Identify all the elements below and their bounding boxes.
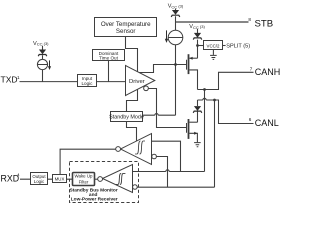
wire TXD input (20, 81, 78, 83)
op-amp receiver U2 (116, 134, 157, 165)
svg-text:8: 8 (248, 17, 251, 22)
wire diode D4 to NMOS drain (197, 100, 199, 122)
node VCC diode / VCC half (196, 44, 199, 47)
wire TXD pull-up vertical (42, 46, 44, 82)
op-amp low-power receiver U3 (98, 165, 138, 193)
box VCC/2 (204, 41, 223, 50)
transistor Q1 PMOS high-side (187, 54, 193, 74)
svg-text:Driver: Driver (129, 79, 145, 85)
box Over Temperature Sensor (95, 18, 157, 37)
wire NMOS bottom lead to ground (189, 133, 197, 142)
svg-text:RXD: RXD (1, 173, 20, 183)
svg-text:Logic: Logic (82, 81, 94, 86)
wire Over Temperature Sensor to Driver (126, 37, 138, 73)
label Standby Bus Monitor and Low-Power Receiver (69, 187, 117, 202)
hop arc CANL node (203, 98, 206, 100)
wire CANL sense vertical (214, 100, 216, 187)
diode D2 VCC top (171, 10, 180, 17)
box Dominant Time Out (93, 50, 125, 61)
wire VCC2 node to VCC/2 box (198, 45, 204, 47)
svg-text:Wake Up: Wake Up (75, 174, 93, 179)
hop arc CANH horizontal (166, 170, 169, 172)
svg-text:Over Temperature: Over Temperature (101, 21, 151, 28)
ground G1 (under VCC/2) (210, 55, 217, 59)
svg-text:7: 7 (250, 66, 253, 71)
wire VCC2 diode chain (197, 29, 199, 58)
wire filter to LP bubble (95, 178, 98, 180)
wire driver output to PMOS gate (138, 65, 187, 73)
wire NMOS top lead (189, 121, 197, 123)
wire STB (176, 21, 249, 23)
svg-text:CANH: CANH (255, 67, 280, 77)
diode D4 CANL node (193, 106, 202, 113)
hysteresis symbol U3 (116, 173, 126, 184)
diode D1 TXD pull-up (38, 50, 47, 57)
svg-text:Standby Mode: Standby Mode (109, 115, 144, 121)
arrow I2 (165, 30, 168, 43)
svg-text:Logic: Logic (34, 179, 45, 184)
box Input Logic (78, 75, 97, 87)
svg-text:Filter: Filter (79, 180, 89, 185)
wire driver bubble to NMOS gate (148, 89, 186, 128)
svg-text:6: 6 (249, 117, 252, 122)
box MUX (53, 175, 67, 183)
wire receiver output to MUX (60, 149, 116, 174)
svg-text:MUX: MUX (55, 176, 65, 181)
wire receiver inverting input to CANL (156, 157, 167, 188)
junction dots (174, 44, 216, 101)
diode D3 VCC second (193, 33, 202, 40)
hop arc standby wire (155, 114, 158, 116)
wire VCC/2 box to ground (212, 50, 214, 55)
node CANL (213, 99, 216, 102)
wire CANH horizontal to LP receiver (hop at 167.5) (133, 171, 205, 173)
svg-text:STB: STB (255, 18, 274, 29)
wire Dominant Time Out to TXD line (108, 61, 110, 82)
current source I2 (driver bias) (168, 30, 183, 45)
wire CANL node to pin (hop at 204.5) (198, 100, 254, 124)
box Output Logic (31, 173, 48, 185)
wire SPLIT stub (223, 45, 226, 47)
op-amp driver U1 (126, 66, 155, 96)
wire receiver top input (152, 141, 181, 171)
wire Input Logic to Driver (97, 81, 126, 83)
current source I1 (TXD pull-up) (37, 59, 47, 69)
node gate / current source (174, 63, 177, 66)
wire standby mode top step (127, 89, 138, 111)
wire CANH sense vertical (204, 90, 206, 172)
svg-text:CANL: CANL (255, 118, 279, 128)
wire CANH node to pin (198, 72, 254, 89)
svg-text:SPLIT (5): SPLIT (5) (226, 44, 250, 50)
svg-text:TXD: TXD (1, 74, 18, 84)
svg-text:Time Out: Time Out (99, 56, 118, 61)
hysteresis symbol U2 (135, 141, 145, 154)
wire standby mode bottom step (127, 122, 137, 142)
wire CANL horizontal to LP receiver bubble (137, 186, 214, 188)
node CANH (203, 88, 206, 91)
transistor Q2 NMOS low-side (187, 119, 198, 139)
arrow I1 (48, 60, 51, 70)
box Standby Mode (109, 112, 144, 122)
svg-text:Sensor: Sensor (116, 28, 136, 35)
svg-text:Low-Power Receiver: Low-Power Receiver (71, 197, 118, 203)
svg-text:VCC/2: VCC/2 (207, 43, 220, 48)
ground G2 (under NMOS) (194, 143, 201, 147)
wire PMOS bottom lead to CANH node (189, 70, 197, 90)
dashed box standby bus monitor (70, 162, 139, 203)
box Wake Up Filter (73, 173, 95, 186)
wire VCC diode to current source and down to gate node (175, 9, 177, 115)
wire standby mode to gate node (hop at 156.5) (143, 114, 176, 116)
wire RXD (20, 178, 73, 180)
wire PMOS top lead (189, 57, 197, 59)
